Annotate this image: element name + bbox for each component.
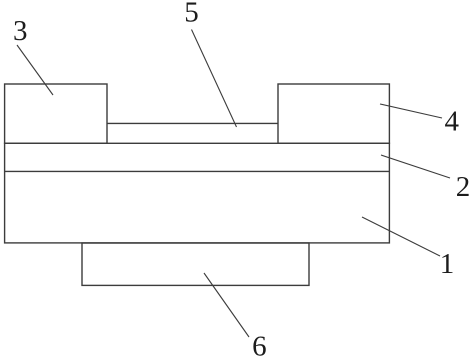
layer 2 divider line [5, 170, 390, 172]
leader line 1 [362, 217, 440, 256]
svg-text:2: 2 [456, 171, 471, 203]
svg-text:5: 5 [184, 0, 199, 29]
leader line 5 [192, 30, 237, 128]
leader line 3 [17, 45, 53, 95]
leader line 4 [380, 104, 442, 118]
svg-text:6: 6 [252, 331, 267, 358]
leader line 6 [204, 273, 249, 337]
layer 1 substrate rectangle [5, 143, 390, 243]
leader line 2 [381, 155, 450, 178]
block 3 (top-left electrode) [5, 84, 107, 143]
svg-text:4: 4 [445, 106, 460, 138]
strip 5 top line (thin layer between electrodes) [107, 122, 278, 124]
rect 6 (bottom pad) [82, 243, 309, 285]
svg-text:3: 3 [13, 15, 28, 47]
block 4 (top-right electrode) [278, 84, 389, 143]
svg-text:1: 1 [440, 248, 455, 280]
